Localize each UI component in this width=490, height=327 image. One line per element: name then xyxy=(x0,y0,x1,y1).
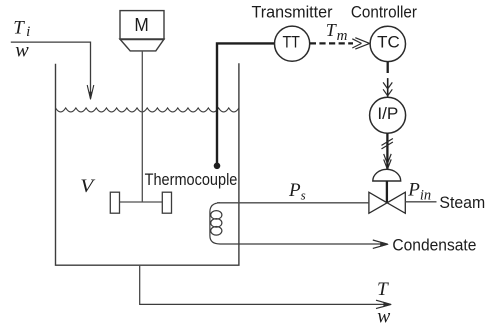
svg-text:T: T xyxy=(377,279,389,300)
outlet arrowhead xyxy=(376,300,391,308)
thermocouple probe wire xyxy=(214,43,275,169)
motor M box xyxy=(120,11,164,51)
valve stem xyxy=(386,181,388,203)
heating coil xyxy=(210,203,222,244)
tank walls xyxy=(56,63,239,265)
control valve body xyxy=(369,192,405,213)
stirrer bar xyxy=(120,201,163,203)
arrowhead TC to I/P xyxy=(383,82,392,95)
steam line Ps from coil to valve xyxy=(217,202,369,204)
signal arrowhead into TC xyxy=(352,38,369,49)
svg-text:Controller: Controller xyxy=(351,3,417,22)
signal wire Tm dashed xyxy=(310,42,353,44)
svg-text:w: w xyxy=(377,307,390,327)
pneumatic wire I/P to valve xyxy=(386,133,388,169)
wire TC to I/P xyxy=(387,62,389,73)
stirrer shaft xyxy=(141,51,143,202)
svg-text:w: w xyxy=(15,41,28,62)
svg-text:Ti: Ti xyxy=(13,18,30,41)
condensate line xyxy=(220,243,386,245)
controller TC xyxy=(370,26,405,61)
stirrer paddle left xyxy=(110,192,119,213)
svg-text:Ps: Ps xyxy=(288,180,306,203)
outlet line xyxy=(140,266,390,305)
inlet arrowhead xyxy=(87,85,94,100)
svg-text:Steam: Steam xyxy=(439,194,485,212)
I/P transducer xyxy=(370,97,406,133)
svg-text:I/P: I/P xyxy=(377,105,398,123)
valve actuator dome xyxy=(373,169,401,181)
svg-text:Condensate: Condensate xyxy=(392,235,476,254)
svg-text:Thermocouple: Thermocouple xyxy=(145,171,238,189)
steam inlet line xyxy=(405,201,436,203)
svg-text:M: M xyxy=(134,15,148,35)
svg-text:TC: TC xyxy=(377,34,400,52)
svg-text:TT: TT xyxy=(282,34,300,52)
condensate arrowhead xyxy=(373,240,388,248)
svg-text:Pin: Pin xyxy=(407,180,431,204)
svg-text:Transmitter: Transmitter xyxy=(252,3,333,22)
svg-text:Tm: Tm xyxy=(326,20,348,44)
pneumatic double slash xyxy=(382,139,393,149)
stirrer paddle right xyxy=(162,192,171,213)
transmitter TT xyxy=(275,26,310,61)
water surface wavy line xyxy=(56,108,239,112)
arrowhead into valve actuator xyxy=(384,154,392,169)
wire inlet stream xyxy=(11,42,91,95)
svg-text:V: V xyxy=(80,176,96,197)
